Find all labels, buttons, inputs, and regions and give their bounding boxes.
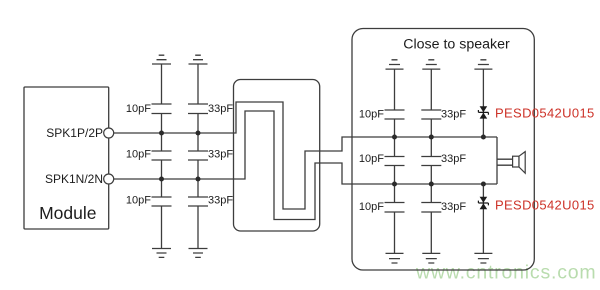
svg-text:33pF: 33pF [441, 201, 466, 213]
ground top left col1 [152, 55, 171, 64]
ground bottom right diode column [474, 253, 492, 263]
wire speaker leads [497, 159, 513, 165]
svg-text:33pF: 33pF [208, 103, 233, 115]
wire trace A (SPK1P/2P to speaker, meander) [114, 102, 497, 209]
close-to-speaker outline box [352, 29, 534, 271]
capacitor 10pF right top [385, 110, 405, 119]
node row2 col2 left [196, 177, 201, 182]
capacitor 10pF right bottom [385, 203, 405, 213]
svg-text:33pF: 33pF [441, 109, 466, 121]
node row1 col2 left [196, 131, 201, 136]
TVS diode D1 PESD0542U015 top [478, 106, 488, 118]
ground bottom left col1 [152, 249, 171, 258]
svg-text:10pF: 10pF [126, 195, 151, 207]
capacitor 33pF right middle [421, 157, 441, 166]
wire speaker connecting vertical [496, 137, 498, 184]
node row2 col1 right [392, 182, 397, 187]
capacitor 10pF left middle [152, 151, 172, 160]
wire trace B (SPK1N/2N to speaker, meander) [114, 111, 497, 220]
capacitor 10pF left bottom [152, 197, 172, 206]
speaker LS1 [513, 152, 526, 174]
svg-text:SPK1P/2P: SPK1P/2P [46, 126, 103, 140]
svg-text:33pF: 33pF [208, 195, 233, 207]
meander trace-matching outline box [234, 80, 320, 232]
svg-text:10pF: 10pF [126, 149, 151, 161]
ground bottom left col2 [189, 249, 208, 258]
TVS diode D2 PESD0542U015 bottom [478, 197, 488, 209]
capacitor 33pF left bottom [188, 197, 208, 206]
wire left column 1 vertical [161, 64, 163, 249]
node row1 col1 right [392, 135, 397, 140]
wire diode column vertical top [482, 69, 484, 137]
node row2 col2 right [429, 182, 434, 187]
svg-text:Close to speaker: Close to speaker [403, 37, 510, 53]
pin SPK1N/2N circle [104, 174, 114, 184]
capacitor 33pF right top [421, 110, 441, 119]
ground top right col2 [422, 60, 440, 69]
svg-text:33pF: 33pF [208, 149, 233, 161]
node row2 diode column [481, 182, 486, 187]
svg-text:10pF: 10pF [359, 153, 384, 165]
module U1 box [24, 87, 109, 229]
capacitor 33pF left top [188, 104, 208, 114]
wire right column 2 vertical [430, 69, 432, 253]
ground bottom right col2 [422, 253, 440, 263]
svg-text:SPK1N/2N: SPK1N/2N [45, 172, 103, 186]
wire left column 2 vertical [197, 64, 199, 249]
wire diode column vertical bottom [482, 184, 484, 253]
svg-text:www.cntronics.com: www.cntronics.com [415, 262, 596, 284]
pin SPK1P/2P circle [104, 128, 114, 138]
capacitor 33pF left middle [188, 151, 208, 160]
ground top right diode column [474, 60, 492, 69]
node row2 col1 left [159, 177, 164, 182]
node row1 col1 left [159, 131, 164, 136]
svg-text:10pF: 10pF [359, 201, 384, 213]
ground top left col2 [189, 55, 208, 64]
ground bottom right col1 [386, 253, 404, 263]
capacitor 33pF right bottom [421, 203, 441, 213]
svg-text:PESD0542U015: PESD0542U015 [495, 198, 595, 213]
svg-text:10pF: 10pF [359, 109, 384, 121]
ground top right col1 [386, 60, 404, 69]
svg-text:PESD0542U015: PESD0542U015 [495, 105, 595, 120]
node row1 diode column [481, 135, 486, 140]
svg-text:10pF: 10pF [126, 103, 151, 115]
svg-text:Module: Module [39, 203, 96, 223]
wire right column 1 vertical [394, 69, 396, 253]
capacitor 10pF left top [152, 104, 172, 114]
capacitor 10pF right middle [385, 157, 405, 166]
node row1 col2 right [429, 135, 434, 140]
svg-text:33pF: 33pF [441, 153, 466, 165]
